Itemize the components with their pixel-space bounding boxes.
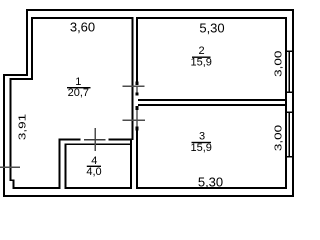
- svg-text:3,00: 3,00: [272, 50, 284, 77]
- svg-text:3,00: 3,00: [272, 124, 284, 151]
- svg-text:5,30: 5,30: [199, 21, 224, 36]
- svg-text:3,60: 3,60: [70, 20, 95, 35]
- svg-text:15,9: 15,9: [190, 57, 211, 69]
- svg-text:2: 2: [198, 45, 204, 57]
- svg-text:4,0: 4,0: [86, 166, 101, 178]
- svg-text:15,9: 15,9: [190, 142, 211, 154]
- svg-text:3,91: 3,91: [16, 113, 28, 140]
- svg-text:3: 3: [199, 131, 205, 143]
- svg-text:20,7: 20,7: [68, 87, 89, 99]
- svg-text:5,30: 5,30: [198, 175, 223, 190]
